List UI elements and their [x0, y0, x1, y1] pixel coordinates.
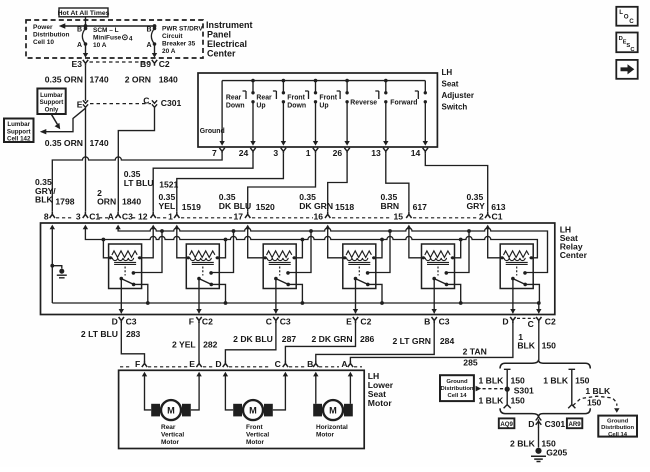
arrow inside motor box at pin F	[142, 372, 147, 377]
svg-text:C2: C2	[202, 317, 213, 327]
relay K5	[422, 244, 455, 289]
svg-text:1 BLK: 1 BLK	[543, 376, 569, 386]
svg-text:26: 26	[333, 148, 343, 158]
svg-text:C: C	[629, 18, 634, 25]
svg-text:ORN: ORN	[97, 197, 116, 207]
svg-text:M: M	[329, 406, 337, 416]
svg-text:1: 1	[168, 211, 173, 221]
relay center bottom pin F C2	[189, 317, 194, 327]
motor box pin C terminal	[283, 361, 288, 367]
svg-text:Front: Front	[246, 424, 263, 431]
svg-text:8: 8	[44, 211, 49, 221]
svg-text:E: E	[189, 359, 195, 369]
svg-text:M: M	[249, 406, 257, 416]
svg-text:C3: C3	[126, 317, 137, 327]
relay center pin 17 terminal	[245, 212, 250, 218]
switch pin 3 terminal	[281, 148, 286, 154]
LH Seat Relay Center box	[41, 223, 555, 315]
svg-text:4: 4	[129, 36, 133, 43]
arrow at switch pin 7	[219, 141, 224, 146]
relay center bottom pin E C2	[346, 317, 352, 327]
svg-text:C: C	[143, 95, 149, 105]
svg-text:20 A: 20 A	[162, 48, 176, 55]
arrow at relay center output K5	[432, 309, 437, 314]
svg-text:1 BLK: 1 BLK	[478, 376, 504, 386]
svg-text:M: M	[167, 406, 175, 416]
dashed wire to splice S301	[483, 388, 505, 390]
switch pin 13 terminal	[383, 148, 388, 154]
wire: 2 LT GRN 284 from pin B C3 to motor pin B	[316, 322, 434, 361]
wire: 2 BLK 150 from C301 to G205	[538, 428, 540, 448]
relay K3	[263, 244, 296, 289]
dashed connector line C301 (E to C)	[90, 103, 151, 105]
relay K4	[343, 244, 376, 289]
wire: motor box pin B to horizontal motor	[315, 375, 317, 403]
arrow inside motor box at pin A	[348, 372, 353, 377]
arrow inside relay center at pin 2	[485, 225, 490, 230]
wire: relay K1 lower contact to ground bus	[134, 284, 148, 303]
svg-text:1: 1	[306, 148, 311, 158]
wire: relay K6 lower contact to ground bus	[525, 284, 539, 303]
svg-text:Front: Front	[287, 95, 305, 102]
switch internal supply bus	[222, 79, 425, 83]
wire: bus1 drop to relay K2 upper contact	[211, 231, 233, 273]
wire: 2 DK GRN 286 from pin E C2 to motor pin C	[285, 322, 355, 361]
svg-text:D: D	[528, 419, 534, 429]
svg-text:DK BLU: DK BLU	[219, 201, 251, 211]
svg-text:286: 286	[360, 334, 375, 344]
wire label 0.35 DK GRN 1518	[299, 192, 354, 212]
relay center pin 8 terminal	[50, 212, 55, 218]
splice bundle top brace	[500, 360, 590, 369]
svg-text:2 DK BLU: 2 DK BLU	[233, 334, 273, 344]
motor box pin D terminal	[223, 361, 228, 367]
svg-text:PWR ST/DRV: PWR ST/DRV	[162, 26, 203, 33]
wire: 0.35 ORN 1740 from E down to relay center pin 3 C1	[85, 108, 87, 212]
Instrument Panel Electrical Center title	[206, 20, 253, 59]
svg-text:2 DK GRN: 2 DK GRN	[312, 334, 353, 344]
svg-text:G205: G205	[546, 447, 567, 457]
svg-text:Switch: Switch	[442, 102, 468, 111]
arrow at relay center output K4	[353, 309, 358, 314]
arrow inside relay center at pin 17	[245, 225, 250, 230]
svg-text:2: 2	[479, 211, 484, 221]
svg-text:Power: Power	[33, 24, 53, 31]
svg-text:7: 7	[212, 148, 217, 158]
switch contact set: Forward	[390, 81, 427, 142]
svg-text:L: L	[619, 9, 623, 16]
wire: bus1 drop to relay K3 upper contact	[288, 231, 311, 273]
svg-text:Cell 142: Cell 142	[7, 136, 31, 143]
harness code box AR9	[567, 418, 582, 428]
svg-text:Lumbar: Lumbar	[7, 121, 30, 128]
relay center pin 3 terminal	[83, 212, 88, 218]
svg-text:283: 283	[126, 329, 141, 339]
wire: relay K3 common output down to bottom pin	[275, 279, 277, 314]
svg-text:AR9: AR9	[568, 421, 581, 428]
connector terminal E of C301	[83, 100, 88, 107]
motor box connector dashed row	[120, 366, 362, 368]
Instrument Panel Electrical Center dashed box	[26, 20, 203, 58]
wire: right 1 BLK 150 branch	[568, 369, 575, 408]
svg-text:Support: Support	[7, 128, 31, 135]
svg-text:D: D	[502, 317, 508, 327]
svg-text:150: 150	[587, 397, 602, 407]
arrow inside motor box at pin E	[196, 372, 201, 377]
wire: 0.35 LT BLU 1521 from pin 24 to relay pin 12	[153, 154, 253, 212]
svg-text:2 LT GRN: 2 LT GRN	[392, 336, 431, 346]
relay center bottom pin B C3	[424, 317, 430, 327]
svg-text:2 ORN: 2 ORN	[125, 75, 151, 85]
arrow inside motor box at pin B	[313, 372, 318, 377]
svg-text:Seat: Seat	[442, 79, 459, 88]
relay center pin 15 terminal	[406, 212, 411, 218]
svg-text:1740: 1740	[90, 75, 109, 85]
svg-text:Forward: Forward	[390, 100, 417, 107]
svg-text:2 LT BLU: 2 LT BLU	[81, 329, 118, 339]
svg-text:1521: 1521	[159, 180, 178, 190]
LH Seat Adjuster Switch box S1	[198, 73, 437, 147]
arrow at relay center output K1	[119, 309, 124, 314]
wire: ground bus to bottom pin C (1 BLK output)	[538, 303, 540, 313]
arrow at switch output Forward	[423, 141, 428, 146]
legend icon box DESC	[616, 33, 637, 53]
wire label 0.35 GRY/BLK 1798	[35, 177, 75, 207]
svg-text:Panel: Panel	[207, 30, 231, 40]
svg-text:B: B	[424, 317, 430, 327]
wire: bus1 drop to relay K4 upper contact	[368, 231, 390, 273]
wire label 1 BLK 150 (upper left branch)	[478, 376, 525, 386]
legend icon box right-arrow	[616, 60, 637, 79]
breaker CB35 value label PWR ST/DRV Circuit Breaker 35 20A	[162, 26, 203, 56]
wire label 1 BLK 150 (lower left branch)	[478, 396, 525, 406]
ground G205	[531, 448, 546, 462]
svg-text:C1: C1	[492, 211, 503, 221]
svg-text:Distribution: Distribution	[601, 425, 634, 431]
wire label 1 BLK 150 (right branch)	[543, 376, 589, 386]
terminal E of C2	[353, 317, 358, 323]
connector terminal B9 of C2	[152, 60, 157, 66]
connector terminal C of C301	[152, 100, 157, 107]
wire: relay K6 common output down to bottom pin	[512, 279, 514, 314]
ground bus inside relay center	[52, 301, 540, 305]
svg-text:B: B	[77, 27, 82, 34]
wire: 0.35 DK GRN 1518 from pin 26 to relay pin 16	[328, 154, 347, 212]
motor M: Front Vertical Motor	[233, 400, 273, 420]
svg-text:C: C	[266, 317, 272, 327]
wire: 0.35 BRN 617 from pin 13 to relay pin 15	[386, 154, 409, 212]
svg-text:Vertical: Vertical	[161, 432, 184, 439]
switch contact set: Front Down	[287, 81, 317, 142]
wire: pin 12 to relay K1 coil right	[142, 228, 154, 258]
wire: control pin to relay K4 coil left	[328, 228, 343, 258]
svg-text:C301: C301	[161, 98, 182, 108]
wire label 0.35 BRN 617	[381, 192, 428, 212]
arrow at switch output Rear Down	[250, 141, 255, 146]
svg-text:1518: 1518	[335, 202, 354, 212]
arrow inside relay center at pin 3	[83, 225, 88, 230]
terminal C of C2	[536, 317, 541, 323]
svg-text:14: 14	[411, 148, 421, 158]
switch pin 24 terminal	[250, 148, 255, 154]
svg-text:C: C	[528, 319, 534, 329]
wire label 0.35 ORN 1740 (upper)	[45, 75, 109, 85]
fuse F1: SCM-L MiniFuse 4 10A	[82, 27, 87, 53]
svg-text:Center: Center	[207, 49, 236, 59]
svg-text:Cell 14: Cell 14	[608, 432, 628, 438]
wire: bus1 drop to relay K5 upper contact	[446, 231, 469, 273]
svg-text:Motor: Motor	[368, 398, 393, 408]
svg-text:A: A	[77, 42, 82, 49]
motor box pin A terminal	[348, 361, 353, 367]
svg-text:A: A	[108, 211, 114, 221]
svg-text:BLK: BLK	[35, 195, 53, 205]
wire: bus2 drop to relay K5 coil right	[455, 240, 461, 258]
svg-text:Adjuster: Adjuster	[442, 91, 474, 100]
wire: 2 TAN 285 from pin D C2 to motor pin A	[350, 322, 513, 361]
wire: 2 DK BLU 287 from pin C C3 to motor pin D	[225, 322, 276, 361]
arrow inside relay center at pin 12	[151, 225, 156, 230]
svg-text:Instrument: Instrument	[206, 20, 253, 30]
svg-text:Motor: Motor	[246, 439, 265, 446]
svg-text:10 A: 10 A	[93, 42, 107, 49]
wire: relay K5 lower contact to ground bus	[447, 284, 461, 303]
svg-text:Only: Only	[45, 106, 59, 113]
arrow inside relay center at pin 15	[406, 225, 411, 230]
wire label 1 BLK 150	[517, 332, 556, 350]
svg-text:1 BLK: 1 BLK	[585, 386, 611, 396]
terminal C of C3	[273, 317, 278, 323]
svg-text:LT BLU: LT BLU	[124, 178, 154, 188]
harness code box AQ9	[499, 418, 515, 428]
wire: motor box pin F to rear vertical motor	[145, 375, 152, 410]
circuit breaker CB35: PWR ST/DRV Circuit Breaker 35 20A	[151, 27, 156, 53]
svg-text:E: E	[77, 99, 83, 109]
motor label Horizontal Motor	[316, 424, 348, 439]
motor M: Rear Vertical Motor	[151, 400, 191, 420]
svg-text:SCM – L: SCM – L	[93, 27, 119, 34]
wire: Hot At All Times feed to fuse B	[85, 17, 87, 26]
svg-text:3: 3	[76, 211, 81, 221]
wire: bus2 drop to relay K3 coil right	[296, 240, 302, 258]
wire: relay K3 lower contact to ground bus	[288, 284, 302, 303]
svg-text:C2: C2	[360, 317, 371, 327]
svg-text:C: C	[275, 359, 281, 369]
switch contact set: Reverse	[350, 81, 387, 142]
wire: motor box pin A to horizontal motor	[349, 375, 351, 403]
motor box pin F terminal	[142, 361, 147, 367]
svg-text:A: A	[341, 359, 347, 369]
wire: motor box pin E to rear vertical motor	[191, 375, 199, 410]
svg-text:1519: 1519	[182, 202, 201, 212]
chassis ground symbol inside relay center	[50, 264, 66, 278]
arrow at switch output Reverse	[383, 141, 388, 146]
svg-text:282: 282	[203, 340, 218, 350]
arrow into IPEC box edge (breaker output)	[152, 53, 157, 58]
svg-text:BRN: BRN	[381, 201, 400, 211]
relay center pin A terminal	[115, 212, 120, 218]
svg-text:2 YEL: 2 YEL	[172, 340, 196, 350]
Lumbar Support Only callout box	[37, 89, 65, 115]
wire: 0.35 GRY 613 from pin 14 to relay pin 2 C1	[425, 154, 487, 212]
arrow inside motor box at pin D	[223, 372, 228, 377]
wire branch: 0.35 ORN to Lumbar Support Cell 142	[40, 108, 86, 134]
svg-text:Motor: Motor	[316, 432, 335, 439]
svg-text:Rear: Rear	[161, 424, 176, 431]
wire label 0.35 LT BLU 1521	[124, 169, 179, 190]
wire label 2 ORN 1840 (at pin A)	[97, 188, 141, 207]
svg-text:S301: S301	[514, 386, 534, 396]
svg-text:1 BLK: 1 BLK	[478, 396, 504, 406]
motor box pin E terminal	[196, 361, 201, 367]
svg-text:24: 24	[239, 148, 249, 158]
arrow inside relay center at pin A	[115, 225, 120, 230]
bus: B+ contact feed (from pin A C3)	[118, 228, 547, 273]
relay center pin 2 terminal	[485, 212, 490, 218]
svg-text:150: 150	[575, 376, 590, 386]
svg-text:Ground: Ground	[446, 379, 468, 385]
svg-text:2 TAN: 2 TAN	[463, 347, 487, 357]
legend icon box LOC	[616, 7, 637, 26]
wire: bus2 drop to relay K1 coil left	[103, 240, 108, 258]
switch contact set: Front Up	[319, 81, 348, 142]
svg-text:Distribution: Distribution	[440, 386, 473, 392]
svg-text:Support: Support	[40, 99, 64, 106]
svg-text:F: F	[189, 317, 194, 327]
svg-text:O: O	[624, 13, 629, 20]
arrow at relay center output K2	[196, 309, 201, 314]
relay center bottom pin D (C2)	[502, 317, 508, 327]
svg-text:17: 17	[234, 211, 244, 221]
wire: B+ feed bus to Power Distribution (left arrow)	[59, 23, 157, 29]
svg-text:Ground: Ground	[607, 418, 629, 424]
svg-text:Motor: Motor	[161, 439, 180, 446]
svg-text:Circuit: Circuit	[162, 33, 183, 40]
wire: relay K2 common output down to bottom pin	[198, 279, 200, 314]
wire: 1 BLK 150 from pin C C2 down to splice bundle	[538, 323, 540, 360]
svg-text:C3: C3	[439, 317, 450, 327]
svg-text:Up: Up	[319, 103, 328, 110]
Hot At All Times label box	[58, 8, 110, 17]
terminal B of C3	[432, 317, 437, 323]
wire label 0.35 DK BLU 1520	[219, 192, 275, 212]
wire: bus2 drop to relay K2 coil right	[219, 240, 225, 258]
relay center bottom pin C C3	[266, 317, 272, 327]
svg-text:150: 150	[511, 396, 526, 406]
svg-text:B: B	[146, 27, 151, 34]
svg-text:Ground: Ground	[200, 128, 225, 135]
relay center pin 16 terminal	[325, 212, 330, 218]
arrow inside relay center at pin 1	[174, 225, 179, 230]
wire: pin 8 ground feed down left side of relay center	[51, 228, 53, 303]
wire label 2 TAN 285	[463, 347, 487, 368]
wire: relay K5 common output down to bottom pin	[433, 279, 435, 314]
svg-text:AQ9: AQ9	[500, 421, 513, 428]
svg-text:617: 617	[413, 202, 428, 212]
Ground Distribution Cell 14 box (right)	[598, 416, 637, 438]
arrow from Lumbar Support Only to wire branch	[52, 115, 61, 130]
svg-text:DK GRN: DK GRN	[299, 201, 333, 211]
motor M: Horizontal Motor	[313, 400, 353, 420]
wire: motor box pin D to front vertical motor	[225, 375, 233, 410]
Power Distribution Cell 10 label	[33, 24, 69, 46]
motor box pin B terminal	[313, 361, 318, 367]
svg-text:2 BLK: 2 BLK	[510, 438, 536, 448]
wire: 0.35 ORN 1740 from E3 to connector E	[85, 66, 87, 101]
arrow inside relay center at pin 8	[50, 225, 55, 230]
relay center top connector dashed row	[56, 217, 478, 219]
svg-text:287: 287	[282, 334, 297, 344]
svg-text:0.35 ORN: 0.35 ORN	[45, 138, 83, 148]
svg-text:15: 15	[394, 211, 404, 221]
wire: control pin to relay K2 coil left	[177, 228, 187, 258]
switch ground drop to pin 7	[221, 81, 223, 142]
LH Lower Seat Motor title	[368, 371, 394, 408]
wire label 0.35 YEL 1519	[159, 192, 202, 212]
wire label 2 DK BLU 287	[233, 334, 296, 344]
switch pin 7 terminal	[219, 148, 224, 154]
wire: 0.35 YEL 1519 from pin 3 to relay pin 1	[177, 154, 284, 212]
svg-text:MiniFuse: MiniFuse	[93, 35, 122, 42]
arrow inside motor box at pin C	[283, 372, 288, 377]
svg-text:1840: 1840	[122, 197, 141, 207]
switch contact set: Rear Down	[226, 81, 255, 142]
wire: 0.35 DK BLU 1520 from pin 1 to relay pin 17	[248, 154, 316, 212]
switch pin 26 terminal	[344, 148, 349, 154]
svg-text:C3: C3	[280, 317, 291, 327]
switch pin 14 terminal	[423, 148, 428, 154]
svg-text:F: F	[135, 359, 140, 369]
svg-text:3: 3	[273, 148, 278, 158]
wire: bus1 drop to relay K1 upper contact	[133, 231, 162, 273]
svg-text:B9: B9	[140, 59, 151, 69]
svg-text:Up: Up	[256, 103, 265, 110]
svg-text:1740: 1740	[90, 138, 109, 148]
Ground Distribution Cell 14 box (left)	[440, 375, 474, 401]
svg-text:C2: C2	[159, 59, 170, 69]
svg-text:285: 285	[463, 357, 478, 367]
wire label 2 DK GRN 286	[312, 334, 375, 344]
svg-text:1520: 1520	[256, 202, 275, 212]
svg-text:C2: C2	[545, 317, 556, 327]
svg-text:C3: C3	[122, 211, 133, 221]
wire: 2 ORN 1840 from C301 down to relay center pin A C3	[118, 108, 154, 212]
svg-text:D: D	[215, 359, 221, 369]
svg-text:1798: 1798	[55, 197, 74, 207]
wire: 2 LT BLU 283 from pin D C3 to motor pin F	[121, 322, 144, 361]
wire: motor box pin C to front vertical motor	[273, 375, 286, 410]
svg-text:Vertical: Vertical	[246, 432, 269, 439]
dashed connector line E3 to B9	[90, 61, 150, 63]
svg-text:GRY: GRY	[467, 201, 486, 211]
svg-text:A: A	[146, 42, 151, 49]
svg-text:Breaker 35: Breaker 35	[162, 41, 196, 48]
wire: relay K2 lower contact to ground bus	[211, 284, 225, 303]
switch contact set: Rear Up	[256, 81, 285, 142]
wire: relay K4 common output down to bottom pin	[355, 279, 357, 314]
wire: control pin to relay K5 coil left	[409, 228, 422, 258]
relay K1	[109, 244, 142, 289]
svg-text:150: 150	[542, 340, 557, 350]
svg-text:Distribution: Distribution	[33, 32, 69, 39]
arrow at switch output Rear Up	[281, 141, 286, 146]
terminal F of C2	[196, 317, 201, 323]
relay K6	[500, 244, 533, 289]
arrow at relay center output K6	[510, 309, 515, 314]
LH Lower Seat Motor box	[119, 370, 365, 448]
svg-text:12: 12	[138, 211, 148, 221]
motor label Front Vertical Motor	[246, 424, 269, 446]
